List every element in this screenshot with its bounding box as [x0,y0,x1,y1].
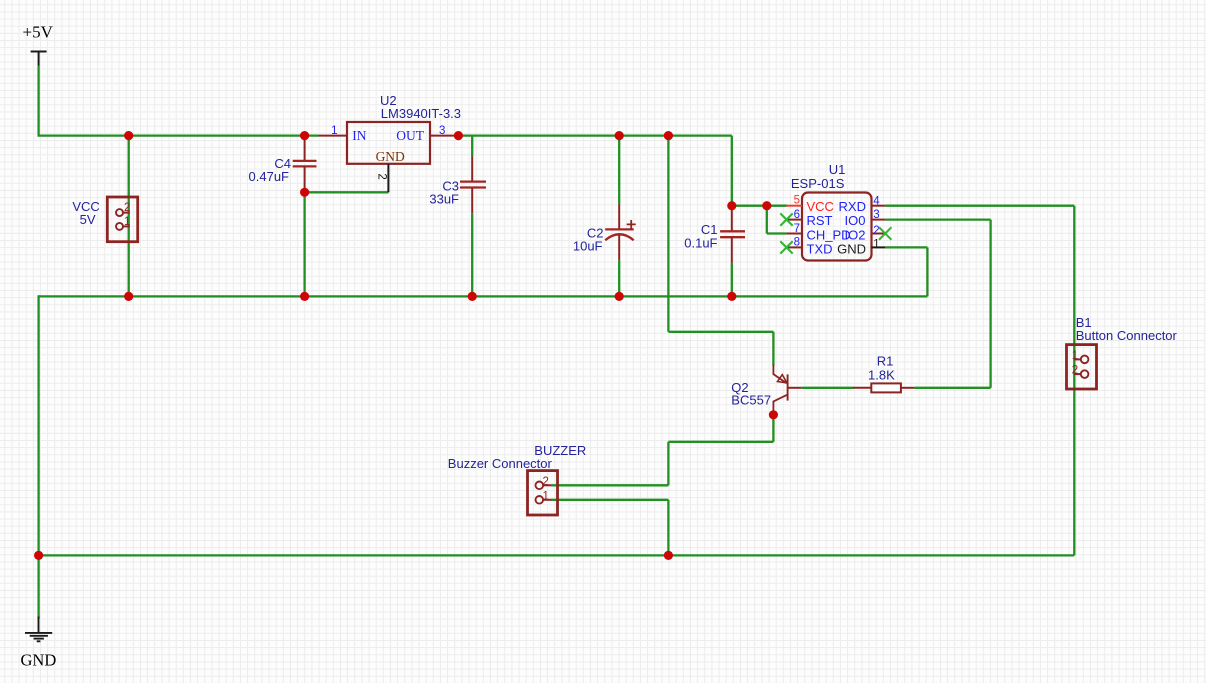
wire C3 bottom [471,213,473,296]
U1 pin 2 stub (IO2) [872,233,886,235]
svg-text:5V: 5V [80,212,96,227]
U1 pin 5 stub (VCC) [787,205,803,207]
wire ESP pin4 to B1 [885,205,1074,207]
C4 top lead [304,137,306,161]
Q2 emitter arrow [778,375,787,383]
svg-text:10uF: 10uF [573,239,603,254]
wire ESP pin1 horizontal [885,246,927,248]
B1 connector body [1067,345,1097,389]
C1 bottom plate [720,236,745,238]
wire ESP pin3 vertical to R1 [989,220,991,388]
C2 positive plate [605,228,634,230]
connector BUZZER [528,471,558,515]
C3 top lead [471,157,473,182]
U1 pin 3 stub (IO0) [872,219,886,221]
capacitor C4 [293,137,317,193]
svg-text:OUT: OUT [396,128,424,143]
junction rail1 VCC [124,131,133,140]
wire buzzer pin1 horizontal [551,499,668,501]
svg-text:IO0: IO0 [845,213,866,228]
junction rail2 VCC [124,292,133,301]
VCC pin 1 circle [116,223,123,230]
C3 bottom lead [471,188,473,214]
svg-text:1: 1 [543,490,549,502]
wire C1 bottom [731,263,733,297]
junction GND rail left [34,551,43,560]
wire emitter horizontal [668,331,773,333]
wire B1 column [1073,206,1075,556]
junction collector [769,410,778,419]
VCC connector body [107,197,137,242]
svg-text:GND: GND [21,651,57,670]
svg-text:33uF: 33uF [429,192,459,207]
svg-text:IN: IN [352,128,366,143]
svg-text:Buzzer Connector: Buzzer Connector [448,456,553,471]
junction rail1 emitter [664,131,673,140]
junction C4 bottom [300,188,309,197]
wire Q2 base to R1 [801,387,853,389]
svg-text:+5V: +5V [23,23,54,42]
BUZZER pin 2 circle [536,482,544,490]
U1 pin 4 stub (RXD) [872,205,886,207]
wire R1 right to vertical [914,387,991,389]
C2 curved negative plate [605,234,634,240]
C1 top plate [720,230,745,232]
junction rail1 C2 [615,131,624,140]
svg-text:BC557: BC557 [731,393,771,408]
svg-text:RST: RST [807,213,833,228]
svg-text:2: 2 [873,225,879,237]
svg-text:1: 1 [1072,350,1078,362]
wire collector down [772,415,774,442]
B1 pin 2 stub [1074,373,1080,375]
wire U2 pin2 jog [305,191,389,193]
svg-text:2: 2 [543,476,549,488]
R1 body [871,383,901,392]
C4 bottom plate [293,165,317,167]
no-connect X pin6 [780,213,792,225]
svg-text:3: 3 [439,125,445,137]
svg-text:2: 2 [1072,365,1078,377]
junction pin5 pin7 branch [762,201,771,210]
svg-text:0.1uF: 0.1uF [684,236,717,251]
svg-text:4: 4 [873,196,880,208]
ground symbol [25,617,52,642]
BUZZER connector body [528,471,558,515]
wire C2 bottom [618,260,620,296]
wire collector horizontal [668,441,773,443]
R1 right lead [901,387,914,389]
svg-text:R1: R1 [877,354,894,369]
wire emitter down to Q2 [772,332,774,366]
transistor Q2 [773,365,801,415]
wire C3 top [471,136,473,157]
B1 pin 2 circle [1081,370,1089,378]
module U1 ESP-01S [780,193,891,261]
BUZZER pin 1 stub [543,499,551,501]
wire VCC connector branch [128,136,130,297]
wire C4 bottom to GND rail [303,192,305,296]
svg-text:2: 2 [124,202,130,214]
capacitor C3 [460,157,486,214]
VCC pin 1 stub [123,225,130,227]
capacitor C2 polarized [605,204,636,260]
svg-text:GND: GND [837,241,866,256]
Q2 emitter lead [773,365,786,384]
wire left GND column [37,295,39,618]
wire ESP pin3 horizontal [885,218,990,220]
U1 pin 1 stub (GND) [872,246,886,248]
svg-text:IO2: IO2 [845,227,866,242]
svg-text:1.8K: 1.8K [868,368,895,383]
svg-text:VCC: VCC [807,199,834,214]
junction rail2 C4 [300,292,309,301]
svg-text:5: 5 [794,194,800,206]
wires layer [38,66,1075,619]
BUZZER pin 2 stub [543,484,551,486]
connector B1 [1067,345,1097,389]
wire C2 top [618,136,620,205]
wire buzzer pin1 to GND rail [667,500,669,556]
B1 pin 1 stub [1074,358,1080,360]
svg-text:1: 1 [331,125,337,137]
svg-text:Button Connector: Button Connector [1076,328,1178,343]
wire bottom GND rail [39,554,1075,556]
U1 body [802,193,872,261]
wire collector to buzzer pin2 drop [667,442,669,486]
junction rail2 C2 [615,292,624,301]
no-connect X pin8 [780,241,792,253]
junction rail2 C1 [727,292,736,301]
wire C1 column [731,136,733,207]
svg-text:3: 3 [873,209,879,221]
svg-text:U1: U1 [829,162,846,177]
wire buzzer pin2 horizontal [551,484,668,486]
VCC pin 2 circle [116,209,123,216]
C2 top lead [618,204,620,229]
svg-text:ESP-01S: ESP-01S [791,176,845,191]
U2 body [347,122,430,164]
wire +5V stem [37,66,39,136]
C3 bottom plate [460,186,486,188]
svg-text:1: 1 [873,238,879,250]
no-connect X pin2 [879,227,891,239]
junction rail2 C3 [468,292,477,301]
power flag +5V [31,52,47,66]
VCC pin 2 stub [123,212,130,214]
B1 pin 1 circle [1081,356,1089,364]
C2 plus sign [627,220,636,229]
connector VCC [107,197,137,242]
svg-text:RXD: RXD [839,199,866,214]
resistor R1 [853,383,914,392]
R1 left lead [853,387,871,389]
C2 bottom lead [618,235,620,260]
svg-text:1: 1 [124,216,130,228]
Q2 collector lead [773,395,787,415]
C3 top plate [460,180,486,182]
Q2 base bar [787,374,789,400]
wire ESP pin7 branch vertical [766,206,768,234]
junction rail1 U2 out [454,131,463,140]
wire emitter drop [667,136,669,332]
svg-text:LM3940IT-3.3: LM3940IT-3.3 [381,106,461,121]
wire 3.3V rail right of U2 [458,134,731,136]
U2 pin 2 stub (GND) [387,164,389,193]
svg-text:0.47uF: 0.47uF [249,169,290,184]
junction rail1 C4 [300,131,309,140]
U1 pin 6 stub (RST) [787,219,803,221]
regulator U2 [319,122,459,192]
junction GND rail buzzer [664,551,673,560]
svg-text:7: 7 [794,223,800,235]
C1 bottom lead [731,237,733,263]
junction pin5 C1 [727,201,736,210]
C4 top plate [293,160,317,162]
svg-text:2: 2 [375,173,387,179]
wire 5V rail top left [38,134,319,136]
C1 top lead [731,206,733,232]
U2 pin 1 stub (IN) [319,135,348,137]
wire ESP pin7 horizontal [767,232,787,234]
svg-text:6: 6 [794,209,800,221]
capacitor C1 [720,206,745,263]
svg-text:GND: GND [376,149,405,164]
svg-text:8: 8 [794,237,800,249]
Q2 base stub [788,387,802,389]
U1 pin 7 stub (CH_PD) [787,233,803,235]
BUZZER pin 1 circle [536,496,544,504]
U2 pin 3 stub (OUT) [430,135,458,137]
U1 pin 8 stub (TXD) [787,246,803,248]
C4 bottom lead [304,166,306,192]
svg-text:TXD: TXD [807,241,833,256]
wire GND rail middle [39,295,928,297]
wire ESP pin1 down to GND rail [926,247,928,296]
wire ESP pin5 to C1 node [732,205,787,207]
